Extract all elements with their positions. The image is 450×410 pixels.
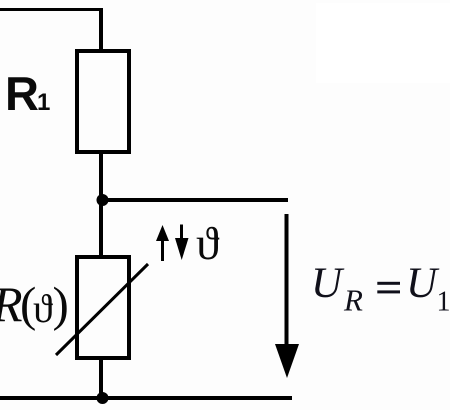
wire thermistor to bottom xyxy=(99,358,103,398)
svg-text:ϑ: ϑ xyxy=(33,286,53,331)
voltage arrow U_R shaft xyxy=(285,214,289,345)
svg-text:U: U xyxy=(406,260,440,307)
wire vertical into R1 xyxy=(99,8,103,51)
wire node to right xyxy=(102,198,288,202)
svg-text:1: 1 xyxy=(37,89,50,116)
thermistor diagonal stroke xyxy=(56,264,148,355)
node A junction dot xyxy=(97,194,109,206)
wire R1 to thermistor xyxy=(99,152,103,257)
wire top horizontal xyxy=(0,8,103,11)
arrow up (temperature rise) xyxy=(161,236,164,261)
arrow down (temperature fall) xyxy=(180,225,183,243)
node B junction dot xyxy=(97,392,109,404)
svg-text:U: U xyxy=(311,260,345,307)
svg-text:R: R xyxy=(5,67,39,120)
wire bottom horizontal xyxy=(0,396,292,400)
resistor R1 xyxy=(77,51,129,152)
svg-text:1: 1 xyxy=(437,287,450,318)
svg-text:): ) xyxy=(53,277,69,332)
thermistor R(theta) xyxy=(77,257,129,358)
svg-text:R: R xyxy=(343,283,363,318)
voltage arrow head xyxy=(275,344,299,378)
svg-text:ϑ: ϑ xyxy=(196,218,220,270)
